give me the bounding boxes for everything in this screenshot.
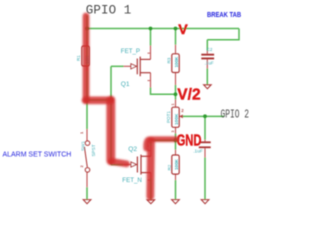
svg-text:100K: 100K <box>174 113 180 125</box>
svg-text:R1: R1 <box>76 55 81 61</box>
svg-text:Q2: Q2 <box>128 146 137 153</box>
svg-text:FET_N: FET_N <box>122 177 142 184</box>
svg-text:.1uF: .1uF <box>193 149 203 155</box>
svg-text:V/2: V/2 <box>177 87 200 104</box>
svg-text:3: 3 <box>171 131 175 133</box>
svg-text:BREAK TAB: BREAK TAB <box>207 11 241 19</box>
svg-text:SPST: SPST <box>91 144 96 156</box>
svg-text:C2: C2 <box>207 47 213 52</box>
svg-text:Q1: Q1 <box>121 81 130 88</box>
svg-text:V: V <box>178 22 188 38</box>
svg-text:100K: 100K <box>174 56 179 68</box>
svg-text:SW1: SW1 <box>80 141 85 151</box>
svg-text:GPIO 2: GPIO 2 <box>221 109 249 122</box>
svg-text:POT1: POT1 <box>166 111 171 123</box>
svg-text:R3: R3 <box>166 57 171 63</box>
svg-text:GPIO 1: GPIO 1 <box>86 4 132 18</box>
svg-text:.1uF: .1uF <box>205 61 214 66</box>
svg-text:100K: 100K <box>174 158 179 170</box>
svg-text:GND: GND <box>177 131 202 150</box>
svg-text:1: 1 <box>79 131 84 134</box>
svg-text:ALARM SET SWITCH: ALARM SET SWITCH <box>3 149 72 158</box>
svg-text:2: 2 <box>181 108 184 113</box>
svg-text:FET_P: FET_P <box>121 48 140 55</box>
svg-text:2: 2 <box>79 165 84 168</box>
svg-text:1: 1 <box>171 104 175 106</box>
svg-text:R2: R2 <box>167 164 172 170</box>
